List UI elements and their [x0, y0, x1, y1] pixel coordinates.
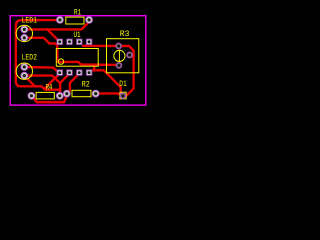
svg-text:LED2: LED2 [22, 54, 38, 63]
wire net L: LED2.top to U1 pad1 bottom [24, 67, 59, 74]
U1 pad 3 top [77, 39, 83, 45]
U1 pad 4 top [86, 39, 92, 45]
wire net I: R3.top around right side down to D1 [119, 46, 134, 96]
wire connector R4.right to R2.left [60, 94, 67, 95]
LED1 pad 2 [21, 34, 28, 41]
wire net J: LED1.bottom to R3.bottom through U1 pin1 circle [24, 38, 119, 65]
IC U1 silk body [56, 49, 98, 67]
R3 silk circle with line [114, 50, 125, 61]
wire net G: R2.right to D1 [96, 93, 123, 95]
U1 pad 2 top [67, 39, 73, 45]
svg-text:D1: D1 [119, 80, 126, 89]
wire net H: U1 pad4 top to R3.top [83, 43, 119, 46]
svg-text:U1: U1 [74, 31, 81, 40]
svg-text:R4: R4 [46, 84, 53, 93]
wire net F: R4.left along board bottom to R2.left [31, 94, 66, 103]
LED2 pad 1 [21, 64, 28, 71]
resistor R4 silk body [36, 92, 54, 99]
wire net E: U1 pad3 bottom to R2.left [67, 74, 80, 94]
wire net D: U1 pad2 bottom to R4.right [60, 74, 70, 96]
svg-text:R1: R1 [74, 8, 81, 17]
LED2 pad 2 [21, 72, 28, 79]
R3 pad bottom [116, 63, 122, 69]
wire net G2: U1 pad4 bottom diagonal down to D1 [89, 65, 123, 96]
R2 pad 1 [63, 90, 70, 97]
R4 pad 1 [28, 92, 35, 99]
resistor R1 silk body [66, 17, 84, 24]
U1 pad 2 bottom [67, 70, 73, 76]
D1 silk square [120, 92, 126, 99]
R3 pad top [116, 43, 122, 49]
svg-text:LED1: LED1 [22, 17, 38, 26]
R4 pad 2 [56, 92, 63, 99]
U1 pad 1 top [57, 39, 63, 45]
R1 pad 2 [86, 16, 93, 23]
R1 pad 1 [56, 16, 63, 23]
wire net B: LED2.bottom diagonal joining wrap trace [24, 76, 35, 87]
U1 pad 3 bottom [77, 70, 83, 76]
wire net K branch to U1 pad1 top [47, 29, 59, 41]
LED1 pad 1 [21, 26, 28, 33]
trimmer R3 silk body [107, 39, 139, 73]
wire net C: U1 pad1 bottom diagonal down-left to wrap trace [46, 74, 60, 90]
R3 pad right [127, 52, 133, 58]
wire LED2.bottom horizontal with step down to R4.right riser [24, 76, 60, 84]
U1 pad 4 bottom [86, 70, 92, 76]
wire net K: LED1.top to R1.right [24, 21, 89, 30]
wire net A: R1.left pad left then down the left side, wrapping under LED2 [16, 20, 60, 90]
svg-text:R3: R3 [120, 30, 130, 39]
U1 pad 1 bottom [57, 70, 63, 76]
board outline [10, 16, 146, 105]
svg-text:R2: R2 [82, 80, 90, 89]
U1 pin1 silk circle [58, 59, 63, 64]
R2 pad 2 [92, 90, 99, 97]
LED1 silk circle [16, 25, 32, 41]
D1 pad [120, 93, 126, 99]
resistor R2 silk body [72, 90, 91, 96]
LED2 silk circle [16, 63, 32, 79]
